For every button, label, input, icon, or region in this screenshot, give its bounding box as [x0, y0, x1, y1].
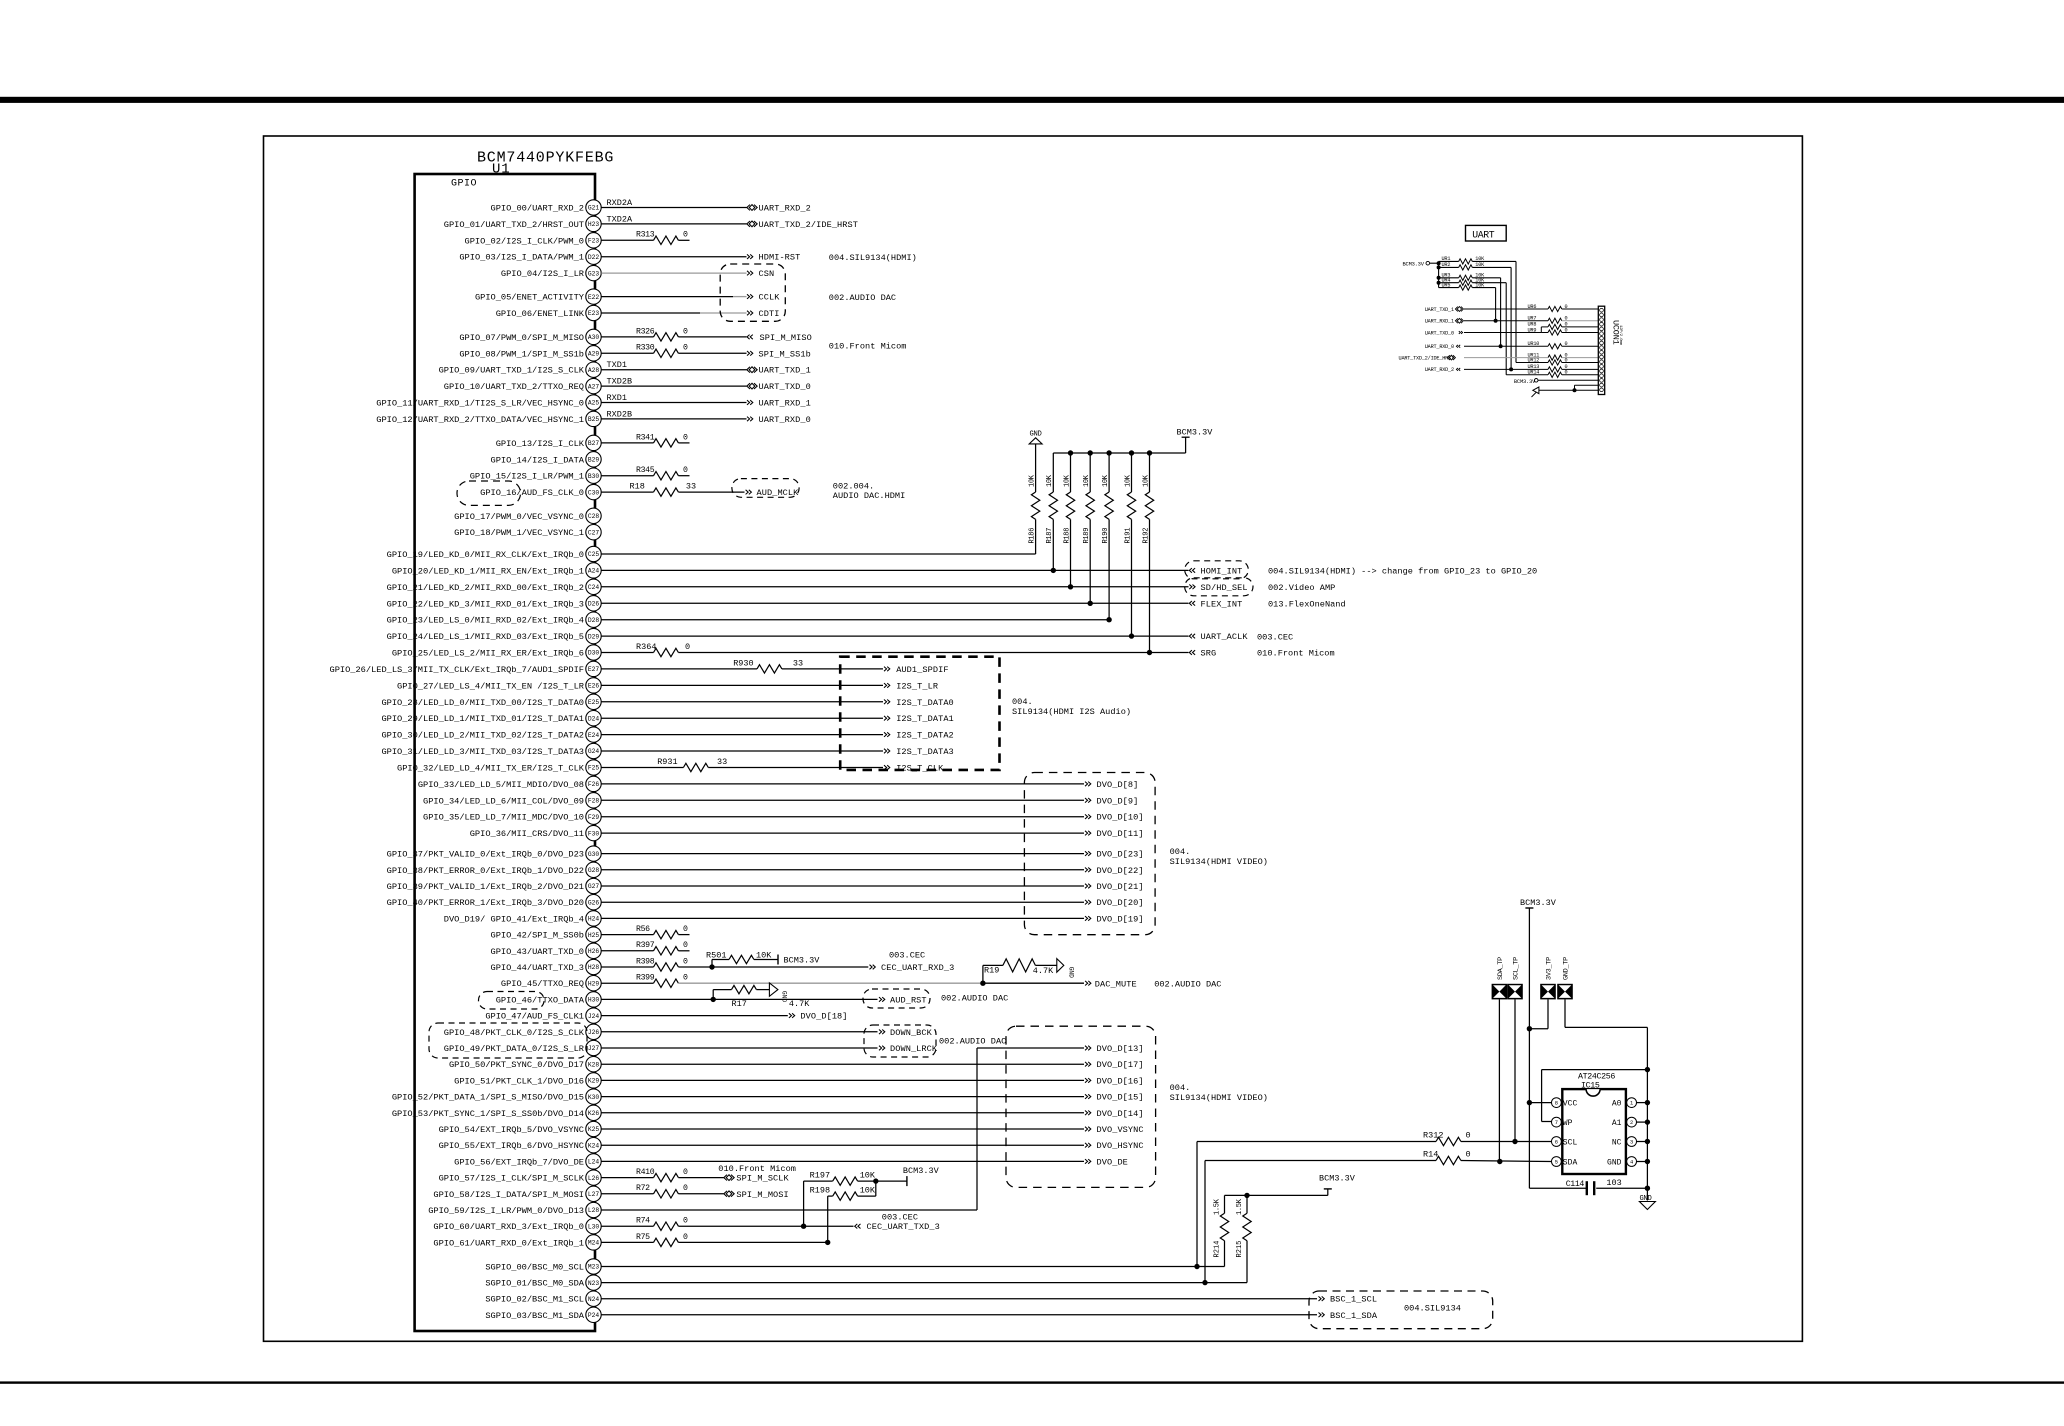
port I2S_T_LR out: [884, 681, 938, 691]
svg-text:GPIO_18/PWM_1/VEC_VSYNC_1: GPIO_18/PWM_1/VEC_VSYNC_1: [454, 528, 584, 538]
svg-text:R312: R312: [1423, 1131, 1443, 1141]
wire R74 to CEC_UART_TXD_3: [678, 1225, 853, 1227]
svg-text:UART_ACLK: UART_ACLK: [1201, 632, 1249, 642]
resistor R192 10K pull-up: [1142, 450, 1153, 652]
svg-text:WP: WP: [1563, 1119, 1573, 1128]
wire GPIO_10 TXD2B: [601, 385, 746, 387]
svg-text:GND: GND: [781, 991, 788, 1002]
svg-text:GPIO_48/PKT_CLK_0/I2S_S_CLK: GPIO_48/PKT_CLK_0/I2S_S_CLK: [444, 1028, 585, 1038]
svg-text:0: 0: [683, 327, 688, 336]
junction R17 tap: [711, 997, 716, 1002]
pin G26 GPIO_40/PKT_ERROR_1/Ext_IRQb_3/DVO_D20: [387, 895, 602, 910]
svg-text:BCM3.3V: BCM3.3V: [1319, 1174, 1356, 1184]
wire GPIO_59 net: [601, 1209, 977, 1211]
resistor R397 0: [636, 941, 690, 955]
pin K24 GPIO_55/EXT_IRQb_6/DVO_HSYNC: [439, 1138, 602, 1153]
svg-text:J27: J27: [588, 1045, 599, 1052]
svg-text:GPIO_58/I2S_I_DATA/SPI_M_MOSI: GPIO_58/I2S_I_DATA/SPI_M_MOSI: [433, 1190, 584, 1200]
pin F30 GPIO_36/MII_CRS/DVO_11: [470, 825, 601, 840]
svg-text:R399: R399: [636, 974, 655, 983]
svg-text:4.7K: 4.7K: [1033, 966, 1054, 976]
IC U1 GPIO section label: [451, 179, 477, 190]
svg-text:L24: L24: [588, 1159, 599, 1166]
port UART_TXD_2/IDE_HRST bidir: [747, 220, 858, 230]
svg-text:E25: E25: [588, 699, 599, 706]
svg-text:R56: R56: [636, 925, 650, 934]
pin A27 GPIO_10/UART_TXD_2/TTXO_REQ: [444, 378, 601, 393]
resistor UR3 10K: [1439, 273, 1501, 347]
resistor R931 33: [657, 757, 727, 772]
svg-text:GPIO_59/I2S_I_LR/PWM_0/DVO_D13: GPIO_59/I2S_I_LR/PWM_0/DVO_D13: [428, 1206, 584, 1216]
note 002.AUDIO DAC down: [939, 1036, 1006, 1046]
junction R192/GPIO_25: [1147, 650, 1152, 655]
note 002.AUDIO DAC rst: [941, 993, 1008, 1003]
svg-text:GPIO_44/UART_TXD_3: GPIO_44/UART_TXD_3: [491, 963, 584, 973]
svg-text:6: 6: [1555, 1140, 1558, 1146]
port DVO_D[16] out: [1085, 1076, 1144, 1086]
svg-text:0: 0: [1466, 1150, 1471, 1160]
port DOWN_BCK out: [879, 1028, 933, 1038]
svg-text:BCM3.3V: BCM3.3V: [903, 1166, 940, 1176]
wire R18 to AUD_MCLK: [678, 491, 744, 493]
resistor UR10 0: [1528, 341, 1599, 349]
svg-text:UART: UART: [1472, 229, 1494, 240]
resistor UR8 0: [1528, 322, 1599, 330]
port DVO_D[10] out: [1085, 813, 1144, 823]
wire GPIO_34 DVO_D[9]: [601, 799, 1084, 801]
wire UR4 to UR14 feed: [1506, 374, 1548, 376]
svg-text:GPIO_24/LED_LS_1/MII_RXD_03/Ex: GPIO_24/LED_LS_1/MII_RXD_03/Ext_IRQb_5: [387, 632, 584, 642]
pin E26 GPIO_27/LED_LS_4/MII_TX_EN /I2S_T_LR: [397, 678, 601, 693]
uart wire txd0: [1464, 327, 1548, 333]
note 013.FlexOneNand: [1268, 600, 1346, 610]
wire GPIO_02 to R313: [601, 239, 653, 241]
dashed oval around GPIO_16: [457, 481, 521, 505]
wire GPIO_29 I2S_T_DATA1: [601, 717, 883, 719]
wire GPIO_22 FLEX_INT: [601, 602, 1188, 604]
svg-text:VCC: VCC: [1563, 1099, 1578, 1108]
svg-text:R330: R330: [636, 344, 655, 353]
svg-text:DOWN_BCK: DOWN_BCK: [890, 1028, 933, 1038]
pin L27 GPIO_58/I2S_I_DATA/SPI_M_MOSI: [433, 1186, 601, 1201]
resistor R56 0: [636, 925, 690, 939]
svg-text:D26: D26: [588, 601, 599, 608]
pin A30 GPIO_07/PWM_0/SPI_M_MISO: [459, 329, 601, 344]
svg-text:I2S_T_CLK: I2S_T_CLK: [896, 764, 944, 774]
svg-text:10K: 10K: [860, 1186, 876, 1196]
wire SGPIO_01 SDA: [601, 1282, 1247, 1284]
pin D24 GPIO_29/LED_LD_1/MII_TXD_01/I2S_T_DATA1: [381, 711, 601, 726]
uart label UART_RXD_0: [1425, 344, 1454, 350]
wire GPIO_53 DVO_D[14]: [601, 1112, 1084, 1114]
net label TXD1: [607, 360, 627, 370]
wire R197/R198 join: [858, 1178, 907, 1196]
svg-text:0: 0: [683, 1184, 688, 1193]
svg-text:UART_RXD_2: UART_RXD_2: [1425, 367, 1454, 373]
pin J27 GPIO_49/PKT_DATA_0/I2S_S_LR: [444, 1040, 601, 1055]
pin C25 GPIO_19/LED_KD_0/MII_RX_CLK/Ext_IRQb_0: [387, 546, 602, 561]
junction UR2 rxd2: [1509, 367, 1513, 371]
wire GPIO_25 to R364: [601, 652, 653, 654]
svg-text:SPI_M_MOSI: SPI_M_MOSI: [736, 1190, 788, 1200]
port DVO_HSYNC out: [1085, 1141, 1144, 1151]
svg-text:H26: H26: [588, 948, 599, 955]
svg-text:R189: R189: [1083, 528, 1091, 544]
port SPI_M_SS1b out: [747, 349, 811, 359]
svg-text:RXD2A: RXD2A: [607, 198, 633, 208]
wire GPIO_08 to R330: [601, 352, 653, 354]
resistor R75 0: [636, 1233, 688, 1247]
svg-text:R74: R74: [636, 1217, 650, 1226]
test point 3V3_TP: [1540, 957, 1556, 1000]
wire GPIO_41 DVO_D[19]: [601, 917, 1084, 919]
svg-text:10K: 10K: [1028, 474, 1036, 487]
svg-text:RXD1: RXD1: [607, 393, 627, 403]
svg-text:103: 103: [1606, 1178, 1621, 1188]
wire GPIO_12 RXD2B: [601, 418, 746, 420]
svg-text:A27: A27: [588, 383, 599, 390]
svg-text:GPIO_13/I2S_I_CLK: GPIO_13/I2S_I_CLK: [496, 439, 585, 449]
svg-text:GPIO_53/PKT_SYNC_1/SPI_S_SS0b/: GPIO_53/PKT_SYNC_1/SPI_S_SS0b/DVO_D14: [392, 1109, 584, 1119]
wire WP pin: [1542, 1070, 1648, 1122]
note 002.Video AMP: [1268, 583, 1335, 593]
wire stub pin 2: [1637, 1121, 1648, 1123]
svg-text:4: 4: [1630, 1160, 1633, 1166]
svg-text:G27: G27: [588, 883, 599, 890]
svg-text:R398: R398: [636, 957, 655, 966]
svg-text:R410: R410: [636, 1168, 655, 1177]
dashed oval around GPIO_46: [479, 992, 545, 1010]
resistor R501 10K: [706, 951, 778, 968]
resistor UR14 0: [1528, 370, 1599, 378]
svg-text:F26: F26: [588, 781, 599, 788]
wire GPIO_32 to R931: [601, 767, 683, 769]
pin K26 GPIO_53/PKT_SYNC_1/SPI_S_SS0b/DVO_D14: [392, 1105, 601, 1120]
port DVO_D[14] out: [1085, 1109, 1144, 1119]
svg-text:GPIO_15/I2S_I_LR/PWM_1: GPIO_15/I2S_I_LR/PWM_1: [470, 472, 584, 482]
svg-text:DVO_D[9]: DVO_D[9]: [1097, 796, 1139, 806]
wire GPIO_23 to R190: [601, 619, 1109, 621]
wire R326 to SPI_M_MISO: [678, 336, 746, 338]
wire GPIO_31 I2S_T_DATA3: [601, 750, 883, 752]
port CSN out: [747, 269, 774, 279]
power BCM3.3V uart: [1403, 261, 1439, 267]
wire R364 to SRG: [678, 652, 1188, 654]
svg-text:DVO_D19/ GPIO_41/Ext_IRQb_4: DVO_D19/ GPIO_41/Ext_IRQb_4: [444, 914, 584, 924]
pin H29 GPIO_45/TTXO_REQ: [501, 976, 601, 991]
svg-text:DVO_VSYNC: DVO_VSYNC: [1097, 1125, 1144, 1135]
wire GPIO_51 DVO_D[16]: [601, 1079, 1084, 1081]
junction pin 1: [1645, 1100, 1650, 1105]
pin L30 GPIO_60/UART_RXD_3/Ext_IRQb_0: [433, 1219, 601, 1234]
pin G23 GPIO_04/I2S_I_LR: [501, 265, 601, 280]
pin B27 GPIO_13/I2S_I_CLK: [496, 435, 601, 450]
svg-text:L26: L26: [588, 1175, 599, 1182]
dashed oval AUD_RST: [863, 989, 930, 1008]
svg-text:C114: C114: [1566, 1180, 1585, 1189]
IC15 pin 8 VCC: [1552, 1098, 1578, 1109]
pin H30 GPIO_46/TTXO_DATA: [496, 992, 601, 1007]
pin G24 GPIO_31/LED_LD_3/MII_TXD_03/I2S_T_DATA3: [381, 743, 601, 758]
IC U1 BCM7440PYKFEBG title: [477, 150, 614, 167]
svg-text:CSN: CSN: [759, 269, 775, 279]
resistor UR11 0: [1528, 352, 1599, 360]
uart port RXD_1: [1455, 318, 1463, 323]
svg-text:K24: K24: [588, 1142, 599, 1149]
junction WP rail: [1645, 1067, 1650, 1072]
uart label UART_TXD_1: [1425, 307, 1454, 313]
power BCM3.3V ucon: [1514, 379, 1598, 386]
svg-text:GPIO_01/UART_TXD_2/HRST_OUT: GPIO_01/UART_TXD_2/HRST_OUT: [444, 220, 584, 230]
note 004. SIL9134(HDMI VIDEO) lower: [1170, 1083, 1268, 1103]
port BSC_1_SCL out: [1319, 1295, 1378, 1305]
svg-text:DVO_D[14]: DVO_D[14]: [1097, 1109, 1144, 1119]
svg-text:010.Front Micom: 010.Front Micom: [829, 341, 907, 351]
wire GPIO_54 DVO_VSYNC: [601, 1128, 1084, 1130]
svg-text:E24: E24: [588, 732, 599, 739]
junction pin 4: [1645, 1159, 1650, 1164]
pin H26 GPIO_43/UART_TXD_0: [491, 943, 602, 958]
resistor R312 0: [1423, 1131, 1471, 1146]
resistor UR2 10K: [1439, 262, 1512, 369]
wire GPIO_05 CCLK: [601, 296, 746, 298]
wire GPIO_26 to R930: [601, 668, 757, 670]
svg-text:AUDIO DAC.HDMI: AUDIO DAC.HDMI: [833, 491, 905, 501]
port SPI_M_MOSI bidir: [724, 1190, 789, 1200]
svg-text:R397: R397: [636, 941, 655, 950]
svg-text:GPIO_05/ENET_ACTIVITY: GPIO_05/ENET_ACTIVITY: [475, 293, 585, 303]
svg-text:GPIO_32/LED_LD_4/MII_TX_ER/I2S: GPIO_32/LED_LD_4/MII_TX_ER/I2S_T_CLK: [397, 764, 585, 774]
svg-text:DVO_D[21]: DVO_D[21]: [1097, 882, 1144, 892]
uart port RXD_0: [1456, 345, 1460, 348]
pin F23 GPIO_02/I2S_I_CLK/PWM_0: [465, 233, 602, 248]
svg-text:F29: F29: [588, 814, 599, 821]
svg-text:BSC_1_SCL: BSC_1_SCL: [1330, 1295, 1377, 1305]
uart gnd arrow: [1532, 385, 1599, 397]
svg-text:F30: F30: [588, 830, 599, 837]
pin H23 GPIO_01/UART_TXD_2/HRST_OUT: [444, 216, 601, 231]
svg-text:H23: H23: [588, 221, 599, 228]
svg-text:F23: F23: [588, 238, 599, 245]
port SPI_M_SCLK bidir: [724, 1174, 790, 1184]
wire R72 to SPI_M_MOSI: [678, 1193, 723, 1195]
connector UCON1: [1598, 306, 1623, 394]
svg-text:GPIO_08/PWM_1/SPI_M_SS1b: GPIO_08/PWM_1/SPI_M_SS1b: [459, 349, 584, 359]
wire GPIO_09 TXD1: [601, 369, 746, 371]
net label RXD2A: [607, 198, 633, 208]
wire GPIO_42 to R56: [601, 934, 653, 936]
uart label UART_RXD_1: [1425, 319, 1454, 325]
svg-text:R197: R197: [810, 1171, 830, 1181]
pin F25 GPIO_32/LED_LD_4/MII_TX_ER/I2S_T_CLK: [397, 760, 601, 775]
note 004.SIL9134: [1404, 1304, 1461, 1314]
dashed oval HDMI_INT: [1185, 561, 1249, 579]
wire GPIO_38 DVO_D[22]: [601, 869, 1084, 871]
wire GPIO_49 DOWN_LRCK: [601, 1047, 877, 1049]
UART block title box: [1466, 225, 1507, 241]
uart port TXD_2: [1447, 355, 1455, 360]
port DVO_D[20] out: [1085, 898, 1144, 908]
svg-text:UR12: UR12: [1528, 357, 1540, 363]
resistor R19 4.7K: [983, 959, 1057, 983]
resistor R330 0: [636, 344, 688, 358]
port CEC_UART_TXD_3 in: [855, 1222, 940, 1232]
wire R330 to SPI_M_SS1b: [678, 352, 746, 354]
svg-text:GPIO_52/PKT_DATA_1/SPI_S_MISO/: GPIO_52/PKT_DATA_1/SPI_S_MISO/DVO_D15: [392, 1093, 584, 1103]
uart wire rxd1: [1464, 320, 1548, 322]
svg-text:0: 0: [683, 957, 688, 966]
svg-text:GPIO_07/PWM_0/SPI_M_MISO: GPIO_07/PWM_0/SPI_M_MISO: [459, 333, 584, 343]
wire GPIO_57 to R410: [601, 1177, 653, 1179]
resistor R214 1.5K: [1213, 1195, 1228, 1266]
resistor R410 0: [636, 1168, 688, 1182]
capacitor C114 103: [1566, 1178, 1622, 1195]
svg-text:M24: M24: [588, 1240, 599, 1247]
junction R189/GPIO_22: [1088, 601, 1093, 606]
note 003.CEC txd: [882, 1212, 918, 1222]
wire GPIO_60 to R74: [601, 1225, 653, 1227]
svg-text:GPIO_16/AUD_FS_CLK_0: GPIO_16/AUD_FS_CLK_0: [480, 488, 584, 498]
svg-text:GPIO_57/I2S_I_CLK/SPI_M_SCLK: GPIO_57/I2S_I_CLK/SPI_M_SCLK: [439, 1174, 585, 1184]
resistor R345 0: [636, 466, 690, 480]
port DVO_DE out: [1085, 1157, 1128, 1167]
svg-text:L30: L30: [588, 1223, 599, 1230]
resistor UR13 0: [1528, 364, 1599, 372]
pin H25 GPIO_42/SPI_M_SS0b: [491, 927, 602, 942]
svg-text:DVO_D[15]: DVO_D[15]: [1097, 1093, 1144, 1103]
svg-text:R313: R313: [636, 231, 655, 240]
svg-text:K30: K30: [588, 1094, 599, 1101]
pin B30 GPIO_15/I2S_I_LR/PWM_1: [470, 468, 601, 483]
svg-text:0: 0: [683, 344, 688, 353]
resistor R399 0: [636, 974, 688, 988]
uart wire rxd2: [1464, 368, 1548, 370]
svg-text:10K: 10K: [1142, 474, 1150, 487]
svg-text:0: 0: [683, 1233, 688, 1242]
svg-text:12P/2.0mm: 12P/2.0mm: [1618, 325, 1623, 346]
svg-text:33: 33: [717, 757, 727, 767]
svg-text:DOWN_LRCK: DOWN_LRCK: [890, 1044, 938, 1054]
svg-text:TXD2B: TXD2B: [607, 377, 633, 387]
pin P24 SGPIO_03/BSC_M1_SDA: [485, 1307, 601, 1322]
wire GPIO_04 CSN gray: [601, 272, 746, 274]
svg-text:C30: C30: [588, 489, 599, 496]
svg-text:GPIO_35/LED_LD_7/MII_MDC/DVO_1: GPIO_35/LED_LD_7/MII_MDC/DVO_10: [423, 813, 584, 823]
svg-text:L28: L28: [588, 1207, 599, 1214]
svg-text:D28: D28: [588, 617, 599, 624]
svg-text:BCM3.3V: BCM3.3V: [1514, 379, 1536, 385]
svg-text:GPIO_34/LED_LD_6/MII_COL/DVO_0: GPIO_34/LED_LD_6/MII_COL/DVO_09: [423, 796, 584, 806]
svg-text:F25: F25: [588, 765, 599, 772]
svg-text:UR2: UR2: [1442, 262, 1451, 268]
svg-text:0: 0: [683, 925, 688, 934]
wire GPIO_46 to AUD_RST: [601, 998, 877, 1000]
note 002.AUDIO DAC: [829, 293, 896, 303]
svg-text:I2S_T_DATA2: I2S_T_DATA2: [896, 731, 954, 741]
svg-text:H25: H25: [588, 932, 599, 939]
svg-text:C27: C27: [588, 529, 599, 536]
svg-text:GPIO_61/UART_RXD_0/Ext_IRQb_1: GPIO_61/UART_RXD_0/Ext_IRQb_1: [433, 1238, 584, 1248]
wire GPIO_47 DVO_D[18]: [601, 1015, 788, 1017]
port AUD_MCLK out: [746, 488, 800, 498]
junction R190/GPIO_23: [1106, 617, 1111, 622]
resistor R17 4.7K: [713, 985, 810, 1009]
svg-text:DVO_D[17]: DVO_D[17]: [1097, 1060, 1144, 1070]
pin F29 GPIO_35/LED_LD_7/MII_MDC/DVO_10: [423, 809, 601, 824]
wire SDA riser: [1205, 1161, 1436, 1283]
svg-text:GPIO_56/EXT_IRQb_7/DVO_DE: GPIO_56/EXT_IRQb_7/DVO_DE: [454, 1157, 584, 1167]
svg-text:R501: R501: [706, 951, 726, 961]
junction UR5 rxd1: [1494, 319, 1498, 323]
svg-text:0: 0: [685, 642, 690, 652]
wire GPIO_35 DVO_D[10]: [601, 816, 1084, 818]
pin N23 SGPIO_01/BSC_M0_SDA: [485, 1275, 601, 1290]
port CCLK out: [747, 293, 780, 303]
svg-text:I2S_T_DATA3: I2S_T_DATA3: [896, 747, 954, 757]
IC U1 body outline: [415, 174, 595, 1331]
wire eeprom right bus: [1646, 1070, 1648, 1201]
svg-text:3V3_TP: 3V3_TP: [1546, 957, 1554, 980]
svg-text:A28: A28: [588, 367, 599, 374]
note 002.AUDIO DAC mute: [1154, 979, 1221, 989]
svg-text:003.CEC: 003.CEC: [889, 950, 925, 960]
svg-text:7: 7: [1555, 1120, 1558, 1126]
resistor R313 0: [636, 231, 690, 245]
wire GPIO_16 to R18: [601, 491, 653, 493]
svg-text:R17: R17: [732, 999, 747, 1009]
wire VCC pin: [1529, 1102, 1551, 1104]
port DOWN_LRCK out: [879, 1044, 938, 1054]
port BSC_1_SDA out: [1319, 1311, 1378, 1321]
wire GPIO_33 DVO_D[8]: [601, 783, 1084, 785]
svg-text:GPIO_17/PWM_0/VEC_VSYNC_0: GPIO_17/PWM_0/VEC_VSYNC_0: [454, 512, 584, 522]
IC15 pin 2 A1: [1612, 1117, 1637, 1128]
resistor R74 0: [636, 1217, 688, 1231]
pin A29 GPIO_08/PWM_1/SPI_M_SS1b: [459, 346, 601, 361]
svg-text:R188: R188: [1063, 528, 1071, 544]
svg-text:UART_TXD_0: UART_TXD_0: [759, 382, 811, 392]
svg-text:GPIO_27/LED_LS_4/MII_TX_EN /I2: GPIO_27/LED_LS_4/MII_TX_EN /I2S_T_LR: [397, 681, 584, 691]
svg-text:GPIO_02/I2S_I_CLK/PWM_0: GPIO_02/I2S_I_CLK/PWM_0: [465, 236, 584, 246]
svg-text:UART_RXD_0: UART_RXD_0: [1425, 344, 1454, 350]
svg-text:UR5: UR5: [1442, 282, 1451, 288]
junction VCC rail: [1527, 1100, 1532, 1105]
wire GPIO_28 I2S_T_DATA0: [601, 701, 883, 703]
wire R14 to SDA pin: [1461, 1161, 1552, 1162]
svg-text:A30: A30: [588, 334, 599, 341]
svg-text:H29: H29: [588, 980, 599, 987]
svg-text:SPI_M_SS1b: SPI_M_SS1b: [759, 349, 811, 359]
wire GPIO_43 to R397: [601, 950, 653, 952]
junction R188/GPIO_21: [1068, 584, 1073, 589]
note 004. SIL9134(HDMI VIDEO) upper: [1170, 847, 1268, 867]
port I2S_T_DATA1 out: [884, 714, 954, 724]
wire GPIO_15 to R345: [601, 475, 653, 477]
IC IC15 AT24C256 body: [1562, 1073, 1626, 1175]
svg-text:UART_RXD_2: UART_RXD_2: [759, 204, 811, 214]
wire SDA_TP lead: [1498, 999, 1500, 1161]
svg-text:004.: 004.: [1012, 697, 1033, 707]
dashed box BSC_1 SIL9134: [1309, 1291, 1493, 1329]
svg-text:G30: G30: [588, 851, 599, 858]
svg-text:SRG: SRG: [1201, 649, 1217, 659]
svg-text:R930: R930: [733, 658, 753, 668]
wire UR1 to UR12 feed: [1516, 362, 1548, 364]
wire GPIO_36 DVO_D[11]: [601, 832, 1084, 834]
junction 3V3 rail: [1527, 1026, 1532, 1031]
junction UR3 rxd0: [1499, 344, 1503, 348]
svg-text:013.FlexOneNand: 013.FlexOneNand: [1268, 600, 1346, 610]
